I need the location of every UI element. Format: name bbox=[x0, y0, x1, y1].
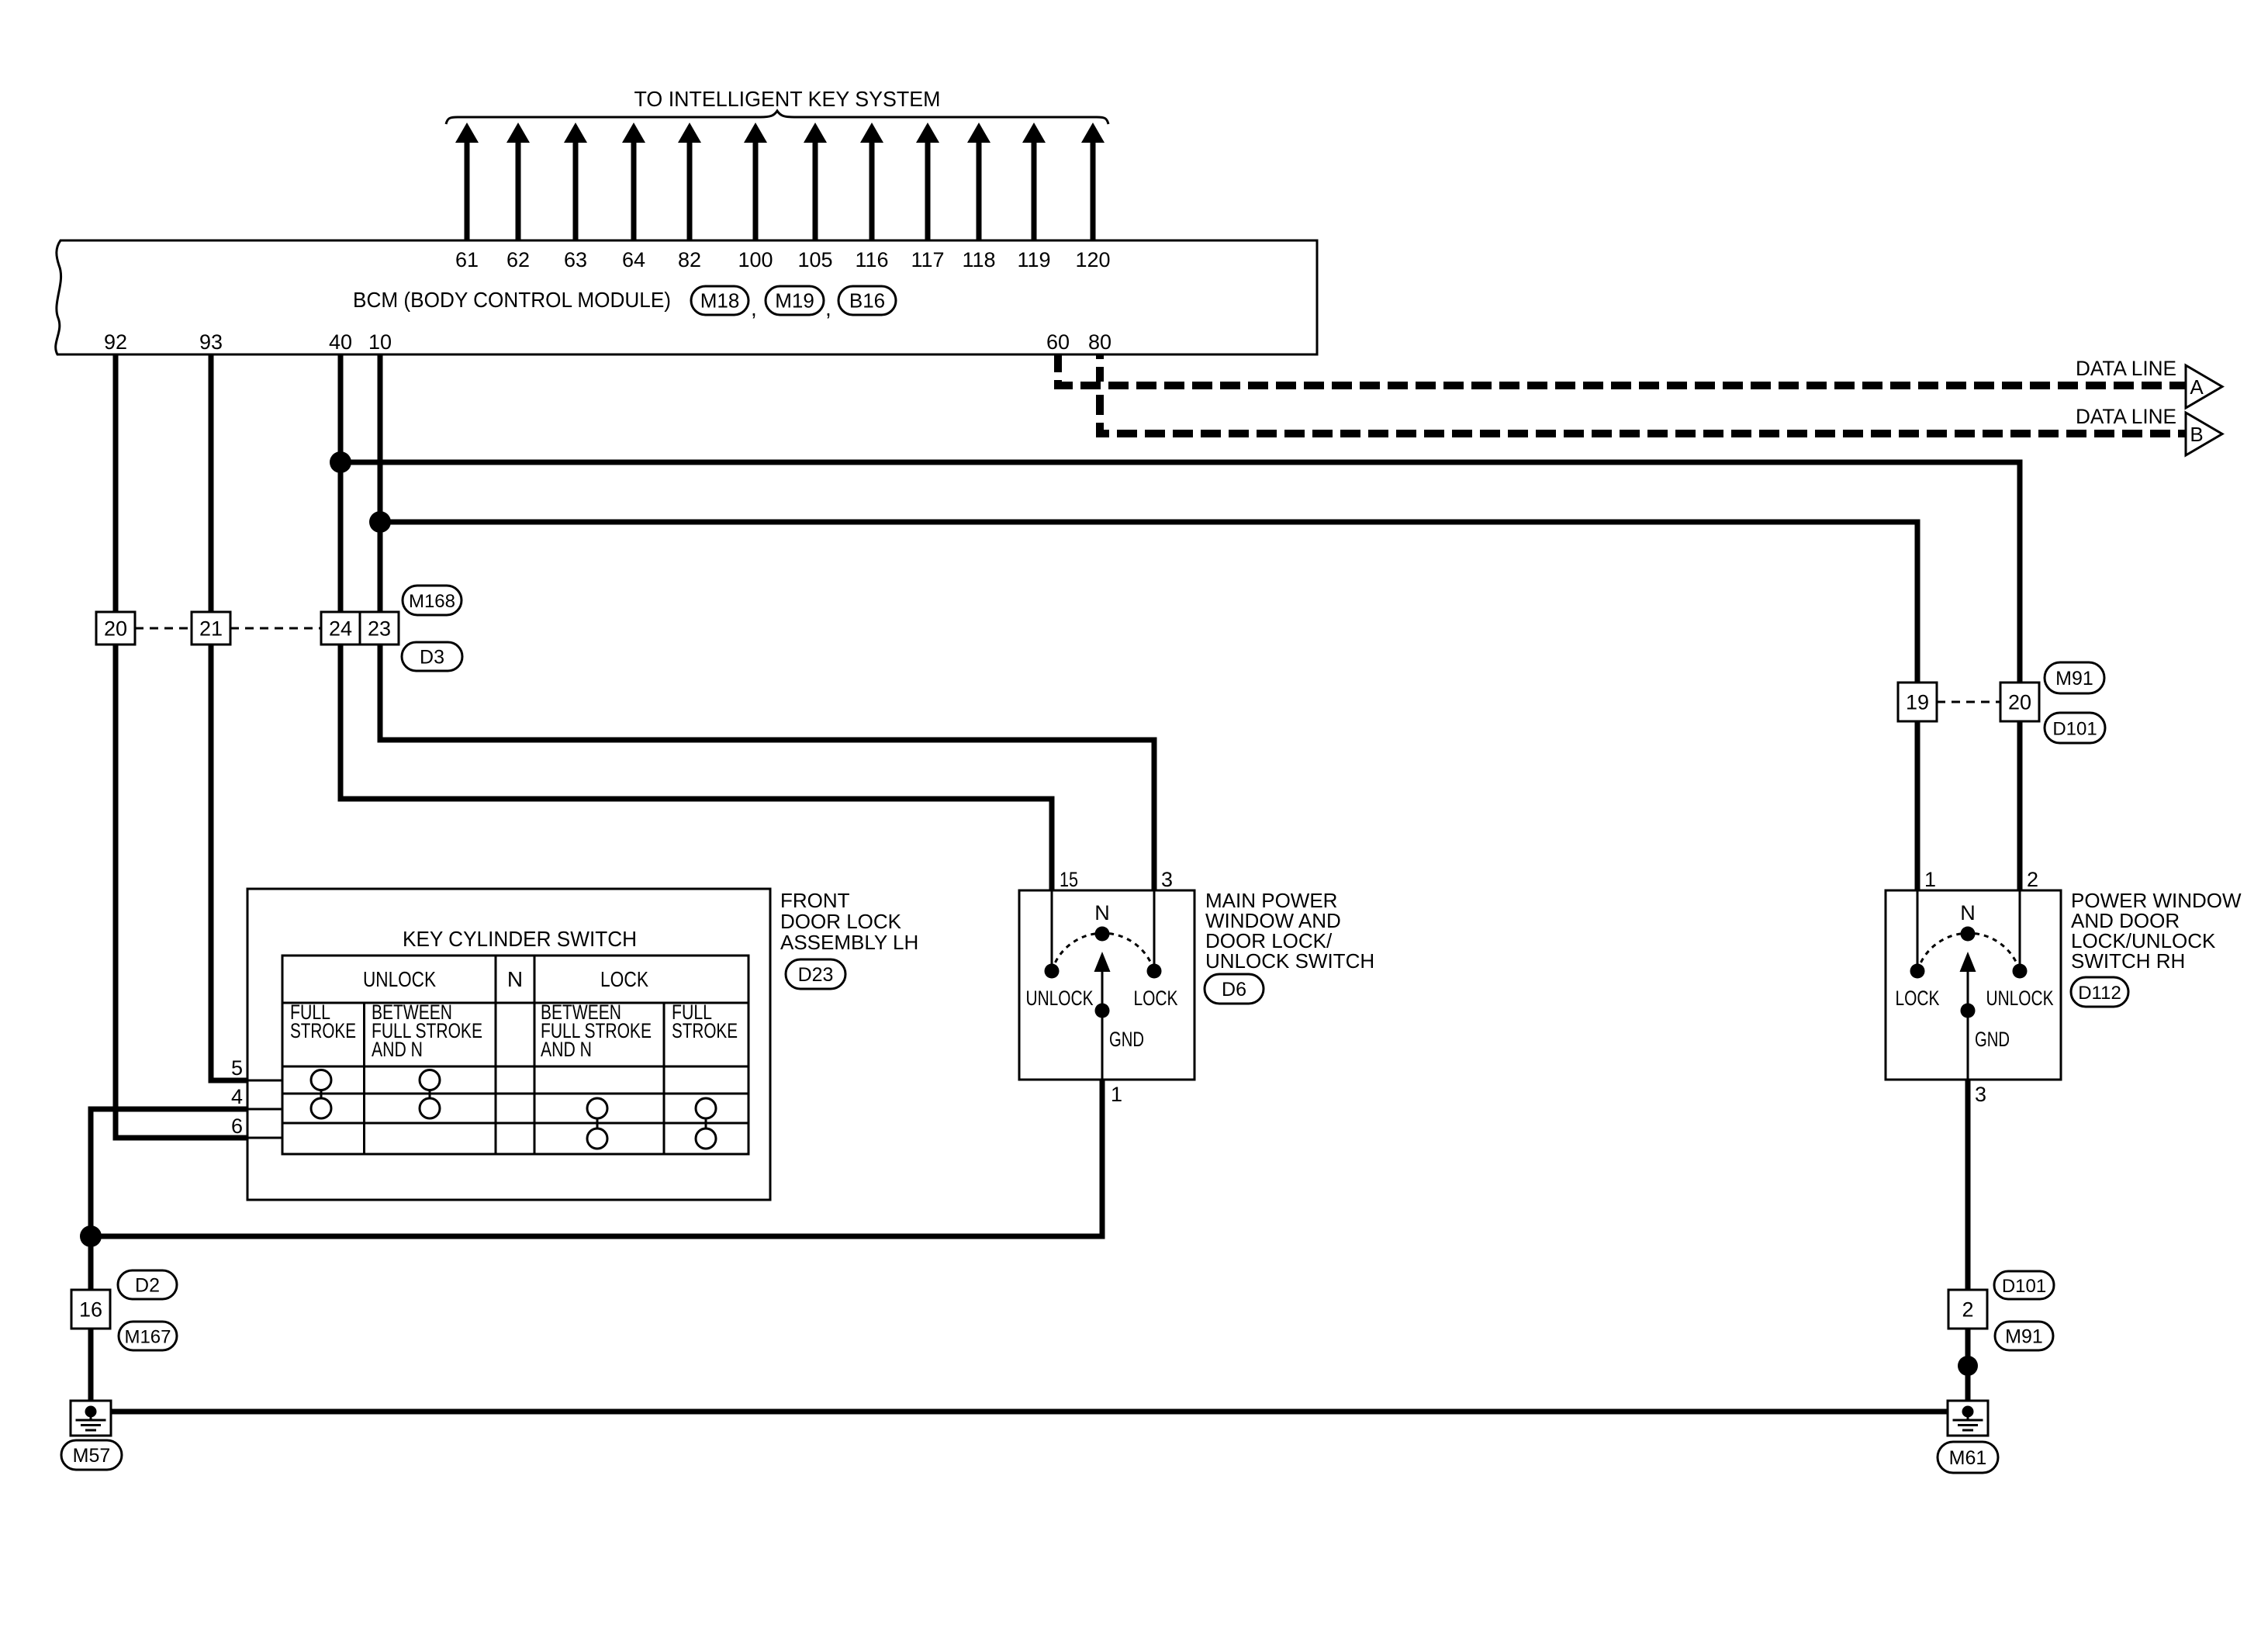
svg-text:4: 4 bbox=[231, 1085, 243, 1108]
svg-text:6: 6 bbox=[231, 1115, 243, 1138]
svg-text:GND: GND bbox=[1975, 1028, 2010, 1051]
arrow to intelligent key system, BCM pin 105 bbox=[804, 123, 827, 240]
svg-text:N: N bbox=[1094, 901, 1110, 924]
svg-text:82: 82 bbox=[678, 248, 701, 271]
svg-text:M167: M167 bbox=[124, 1327, 171, 1348]
connector oval M19 bbox=[766, 286, 824, 315]
svg-text:STROKE: STROKE bbox=[672, 1019, 738, 1042]
connector square 24 bbox=[321, 612, 360, 645]
svg-text:AND N: AND N bbox=[541, 1038, 592, 1061]
ground symbol M57 bbox=[71, 1401, 111, 1436]
svg-text:N: N bbox=[507, 967, 523, 991]
arrow to intelligent key system, BCM pin 63 bbox=[564, 123, 587, 240]
connector square 21 bbox=[192, 612, 230, 645]
svg-text:15: 15 bbox=[1060, 868, 1078, 891]
svg-text:62: 62 bbox=[506, 248, 530, 271]
svg-text:BCM (BODY CONTROL MODULE): BCM (BODY CONTROL MODULE) bbox=[353, 288, 671, 312]
svg-text:STROKE: STROKE bbox=[290, 1019, 356, 1042]
off-page connector triangle A bbox=[2186, 365, 2222, 408]
svg-text:2: 2 bbox=[2027, 868, 2038, 891]
svg-text:5: 5 bbox=[231, 1056, 243, 1080]
svg-text:61: 61 bbox=[455, 248, 479, 271]
connector oval M57 bbox=[61, 1440, 122, 1470]
junction dot bbox=[1958, 1356, 1978, 1376]
svg-text:M91: M91 bbox=[2055, 668, 2093, 689]
svg-text:DATA LINE: DATA LINE bbox=[2076, 405, 2176, 428]
svg-text:92: 92 bbox=[104, 330, 127, 354]
switch contacts between unlock (rows 5-4) bbox=[420, 1070, 440, 1119]
svg-text:,: , bbox=[825, 296, 831, 320]
svg-text:10: 10 bbox=[368, 330, 392, 354]
svg-text:116: 116 bbox=[855, 248, 888, 271]
connector oval D112 bbox=[2071, 977, 2128, 1007]
arrow to intelligent key system, BCM pin 117 bbox=[916, 123, 939, 240]
svg-text:63: 63 bbox=[564, 248, 587, 271]
svg-text:LOCK: LOCK bbox=[1134, 987, 1178, 1010]
front door lock assembly LH outer box bbox=[247, 889, 770, 1200]
ground symbol M61 bbox=[1948, 1401, 1988, 1436]
svg-text:KEY CYLINDER SWITCH: KEY CYLINDER SWITCH bbox=[403, 927, 637, 951]
main power window and door lock/unlock switch D6 internal contacts bbox=[1045, 890, 1162, 1080]
svg-text:AND N: AND N bbox=[372, 1038, 423, 1061]
svg-text:B16: B16 bbox=[849, 289, 885, 313]
svg-text:24: 24 bbox=[329, 617, 352, 641]
connector oval D3 bbox=[402, 642, 462, 671]
svg-text:64: 64 bbox=[622, 248, 645, 271]
svg-text:UNLOCK: UNLOCK bbox=[363, 967, 436, 991]
arrow to intelligent key system, BCM pin 120 bbox=[1081, 123, 1105, 240]
svg-text:UNLOCK: UNLOCK bbox=[1986, 987, 2054, 1010]
connector oval M91 bbox=[1995, 1322, 2053, 1350]
connector square 2 bbox=[1948, 1290, 1987, 1329]
connector oval D2 bbox=[118, 1270, 177, 1299]
arrow to intelligent key system, BCM pin 61 bbox=[455, 123, 479, 240]
arrow to intelligent key system, BCM pin 119 bbox=[1022, 123, 1046, 240]
wire D112 pin 3 (GND) to connector 2 bbox=[1965, 1080, 1971, 1290]
dashed connector link 21-24 bbox=[230, 627, 321, 630]
connector oval D6 bbox=[1205, 974, 1264, 1004]
svg-text:LOCK: LOCK bbox=[1896, 987, 1940, 1010]
svg-text:93: 93 bbox=[199, 330, 223, 354]
svg-text:TO INTELLIGENT KEY SYSTEM: TO INTELLIGENT KEY SYSTEM bbox=[634, 87, 941, 111]
svg-text:1: 1 bbox=[1111, 1083, 1122, 1106]
connector square 19 bbox=[1898, 683, 1937, 721]
junction dot bbox=[80, 1225, 102, 1247]
arrow to intelligent key system, BCM pin 118 bbox=[967, 123, 990, 240]
wire BCM pin 92 to key cylinder row 6 bbox=[116, 354, 247, 1138]
connector square 20 bbox=[96, 612, 135, 645]
off-page connector triangle B bbox=[2186, 413, 2222, 455]
svg-text:3: 3 bbox=[1975, 1083, 1986, 1106]
connector oval D101 bbox=[1994, 1271, 2054, 1299]
svg-text:M57: M57 bbox=[73, 1445, 111, 1467]
svg-text:,: , bbox=[751, 296, 757, 320]
svg-text:20: 20 bbox=[2008, 691, 2031, 714]
svg-text:D23: D23 bbox=[798, 964, 834, 986]
wire BCM pin 40 to D6 pin 15 bbox=[341, 354, 1052, 890]
key cylinder switch table bbox=[282, 956, 748, 1154]
svg-text:FRONT: FRONT bbox=[780, 889, 850, 912]
svg-text:118: 118 bbox=[962, 248, 995, 271]
svg-text:D101: D101 bbox=[2052, 719, 2097, 740]
svg-text:DOOR LOCK: DOOR LOCK bbox=[780, 910, 902, 933]
svg-text:A: A bbox=[2190, 375, 2204, 399]
svg-text:GND: GND bbox=[1109, 1028, 1144, 1051]
power window and door lock/unlock switch RH D112 internal contacts bbox=[1910, 890, 2028, 1080]
wire D6 pin 1 (GND) to ground branch bbox=[91, 1080, 1102, 1236]
junction dot bbox=[330, 451, 351, 473]
wire BCM pin 93 to key cylinder row 5 bbox=[211, 354, 247, 1080]
svg-text:23: 23 bbox=[368, 617, 391, 641]
arrow to intelligent key system, BCM pin 116 bbox=[860, 123, 883, 240]
dashed connector link 19-20 bbox=[1937, 701, 2000, 703]
connector oval M168 bbox=[403, 586, 462, 615]
main power window and door lock/unlock switch D6 box bbox=[1019, 890, 1194, 1080]
svg-text:21: 21 bbox=[199, 617, 223, 641]
svg-text:M61: M61 bbox=[1949, 1447, 1987, 1469]
svg-text:1: 1 bbox=[1924, 868, 1936, 891]
wire junction on pin40 wire to D112 pin 2 bbox=[341, 462, 2020, 890]
svg-text:UNLOCK SWITCH: UNLOCK SWITCH bbox=[1205, 949, 1374, 973]
arrow to intelligent key system, BCM pin 82 bbox=[678, 123, 701, 240]
svg-text:117: 117 bbox=[911, 248, 944, 271]
svg-text:105: 105 bbox=[797, 248, 832, 271]
connector square 20 bbox=[2000, 683, 2039, 721]
svg-text:M18: M18 bbox=[700, 289, 740, 313]
switch contacts full stroke lock (rows 4-6) bbox=[696, 1098, 716, 1149]
connector oval M167 bbox=[119, 1322, 177, 1350]
BCM (Body Control Module) box bbox=[56, 240, 1317, 354]
svg-text:UNLOCK: UNLOCK bbox=[1026, 987, 1094, 1010]
arrow to intelligent key system, BCM pin 62 bbox=[506, 123, 530, 240]
connector oval M61 bbox=[1938, 1442, 1998, 1473]
svg-text:16: 16 bbox=[79, 1298, 102, 1322]
arrow to intelligent key system, BCM pin 100 bbox=[744, 123, 767, 240]
svg-text:D101: D101 bbox=[2002, 1276, 2046, 1297]
svg-text:N: N bbox=[1960, 901, 1976, 924]
svg-text:19: 19 bbox=[1906, 691, 1929, 714]
svg-text:2: 2 bbox=[1962, 1298, 1973, 1322]
dashed connector link 20-21 bbox=[135, 627, 192, 630]
data line A from BCM pin 60 (checkered wire) bbox=[1058, 355, 2186, 385]
connector oval M18 bbox=[691, 286, 748, 315]
svg-text:ASSEMBLY LH: ASSEMBLY LH bbox=[780, 931, 918, 954]
svg-text:3: 3 bbox=[1161, 868, 1173, 891]
svg-text:DATA LINE: DATA LINE bbox=[2076, 357, 2176, 380]
svg-text:M168: M168 bbox=[409, 591, 455, 612]
svg-text:20: 20 bbox=[104, 617, 127, 641]
switch contacts full stroke unlock (rows 5-4) bbox=[311, 1070, 331, 1119]
wire key cylinder row 4 to ground branch bbox=[91, 1109, 247, 1290]
connector square 16 bbox=[71, 1290, 110, 1329]
switch contacts between lock (rows 4-6) bbox=[587, 1098, 607, 1149]
svg-text:100: 100 bbox=[738, 248, 773, 271]
svg-text:LOCK: LOCK bbox=[600, 967, 648, 991]
wire connector 16 to ground M57 bbox=[88, 1329, 94, 1405]
svg-text:D112: D112 bbox=[2078, 983, 2121, 1004]
wire connector 2 to ground M61 bbox=[1965, 1329, 1971, 1405]
svg-text:40: 40 bbox=[329, 330, 352, 354]
svg-text:SWITCH RH: SWITCH RH bbox=[2071, 949, 2185, 973]
connector square 23 bbox=[360, 612, 399, 645]
ground bus wire M57 to M61 bbox=[91, 1409, 1968, 1415]
svg-text:D3: D3 bbox=[420, 647, 444, 669]
svg-text:D2: D2 bbox=[135, 1275, 160, 1297]
svg-text:B: B bbox=[2190, 423, 2203, 446]
brace over arrows bbox=[446, 111, 1108, 124]
wire BCM pin 10 to D6 pin 3 bbox=[380, 354, 1154, 890]
svg-text:120: 120 bbox=[1075, 248, 1110, 271]
data line B from BCM pin 80 (checkered wire) bbox=[1100, 355, 2186, 434]
connector oval M91 bbox=[2045, 662, 2104, 693]
svg-text:M91: M91 bbox=[2005, 1326, 2043, 1348]
arrow to intelligent key system, BCM pin 64 bbox=[622, 123, 645, 240]
svg-text:D6: D6 bbox=[1222, 979, 1246, 1001]
thin row stub lines from box edge to table bbox=[247, 1080, 282, 1082]
svg-text:60: 60 bbox=[1046, 330, 1070, 354]
svg-text:119: 119 bbox=[1017, 248, 1050, 271]
connector oval D23 bbox=[786, 959, 845, 989]
junction dot bbox=[369, 511, 391, 533]
connector oval B16 bbox=[838, 286, 896, 315]
power window and door lock/unlock switch RH D112 box bbox=[1886, 890, 2061, 1080]
svg-text:M19: M19 bbox=[775, 289, 814, 313]
wire junction on pin10 wire to D112 pin 1 bbox=[380, 522, 1917, 890]
svg-text:80: 80 bbox=[1088, 330, 1111, 354]
connector oval D101 bbox=[2045, 713, 2105, 743]
